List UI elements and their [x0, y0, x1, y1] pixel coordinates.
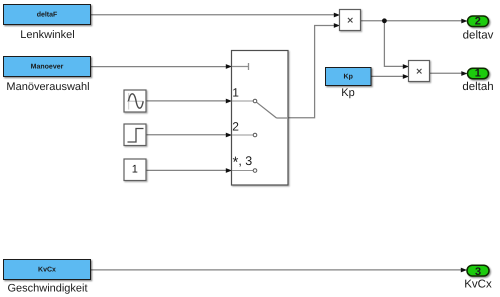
svg-text:1: 1: [475, 68, 481, 80]
svg-text:Geschwindigkeit: Geschwindigkeit: [7, 282, 87, 294]
svg-text:Lenkwinkel: Lenkwinkel: [20, 29, 74, 41]
svg-text:deltav: deltav: [463, 30, 494, 42]
svg-text:deltah: deltah: [462, 81, 493, 93]
svg-text:1: 1: [132, 163, 138, 175]
svg-text:2: 2: [232, 120, 239, 134]
svg-text:Kp: Kp: [341, 87, 354, 99]
svg-text:Kp: Kp: [344, 74, 353, 81]
svg-text:KvCx: KvCx: [38, 267, 56, 274]
svg-text:1: 1: [232, 86, 239, 100]
svg-text:Manoever: Manoever: [31, 64, 64, 71]
svg-text:KvCx: KvCx: [464, 278, 492, 290]
svg-text:2: 2: [475, 16, 481, 28]
svg-text:Manöverauswahl: Manöverauswahl: [6, 81, 89, 93]
svg-text:deltaF: deltaF: [37, 11, 58, 19]
svg-text:3: 3: [475, 266, 481, 278]
